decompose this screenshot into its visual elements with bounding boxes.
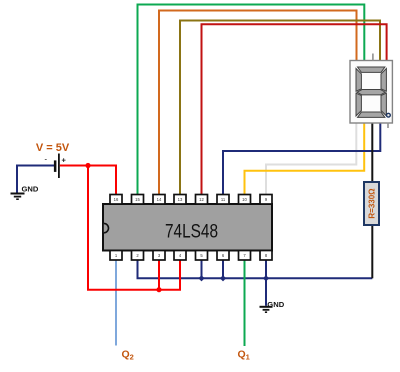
- svg-text:GND: GND: [267, 300, 284, 309]
- svg-text:GND: GND: [22, 184, 39, 193]
- junction pin8: [263, 275, 269, 281]
- wire yellow pin10 to display bottom: [245, 123, 365, 196]
- resistor R1: [364, 182, 379, 225]
- wire black display to resistor top: [371, 123, 373, 183]
- svg-text:13: 13: [178, 197, 183, 202]
- wire green pin7 to Q1: [244, 260, 246, 346]
- display unconnected pin stub top: [372, 54, 374, 61]
- IC notch: [104, 223, 109, 232]
- segment b: [381, 69, 386, 92]
- segment f: [356, 69, 361, 92]
- svg-text:+: +: [62, 156, 67, 165]
- IC top pin boxes 16..9: [110, 195, 272, 205]
- battery V1 cell symbol: [45, 154, 67, 179]
- IC bottom pin boxes 1..8: [110, 251, 272, 261]
- svg-text:12: 12: [199, 197, 204, 202]
- display decimal point: [387, 113, 391, 117]
- wire pin8 ground stub: [265, 260, 267, 278]
- IC body: [103, 204, 272, 251]
- svg-text:16: 16: [114, 197, 119, 202]
- segment c: [381, 93, 386, 116]
- wire pin3 stub: [158, 260, 160, 290]
- IC bottom pin numbers: [115, 253, 268, 258]
- svg-text:-: -: [45, 155, 48, 164]
- svg-text:Q2: Q2: [122, 348, 134, 361]
- wire light-blue pin1 to Q2: [115, 260, 117, 346]
- svg-text:14: 14: [157, 197, 162, 202]
- wire dark-yellow pin13 to display top: [180, 21, 380, 196]
- wire green pin15 to display top: [138, 5, 365, 196]
- wire pin5 ground stub: [201, 260, 203, 278]
- svg-text:10: 10: [242, 197, 247, 202]
- junction pin6: [220, 275, 226, 281]
- ground GND1: [11, 184, 39, 199]
- IC U1 74LS48: [103, 204, 272, 251]
- svg-text:V = 5V: V = 5V: [36, 142, 70, 154]
- segment g: [357, 90, 385, 95]
- wire red pin12 to display top: [202, 24, 387, 195]
- svg-text:Q1: Q1: [238, 348, 250, 361]
- wire +5V left rail down to pins 3,4: [88, 166, 180, 290]
- display unconnected pin stub bottom: [387, 123, 389, 129]
- svg-text:15: 15: [135, 197, 140, 202]
- wire orange pin14 to display top: [159, 11, 357, 196]
- 7-segment display U2 body: [350, 61, 392, 124]
- display segments: [356, 67, 386, 117]
- wire white pin9 to display bottom: [266, 123, 356, 196]
- junction pin3: [156, 287, 161, 292]
- wire pin6 ground stub: [222, 260, 224, 278]
- svg-text:11: 11: [221, 197, 226, 202]
- ground GND2: [260, 300, 285, 312]
- svg-text:R=330Ω: R=330Ω: [367, 188, 376, 219]
- junction pin5: [198, 275, 204, 281]
- segment a: [358, 67, 385, 72]
- junction battery rail: [85, 163, 90, 168]
- wire navy pin11 to display bottom: [223, 123, 380, 196]
- wire ground stub below pin8: [265, 278, 267, 306]
- svg-text:74LS48: 74LS48: [165, 222, 218, 243]
- IC top pin numbers: [114, 197, 268, 202]
- wire battery negative to ground: [17, 166, 54, 193]
- wire battery positive to pin16: [60, 166, 116, 196]
- wire black resistor bottom to ground rail: [371, 225, 373, 278]
- segment e: [356, 93, 361, 116]
- segment d: [358, 112, 385, 117]
- wire navy ground rail: [138, 260, 373, 278]
